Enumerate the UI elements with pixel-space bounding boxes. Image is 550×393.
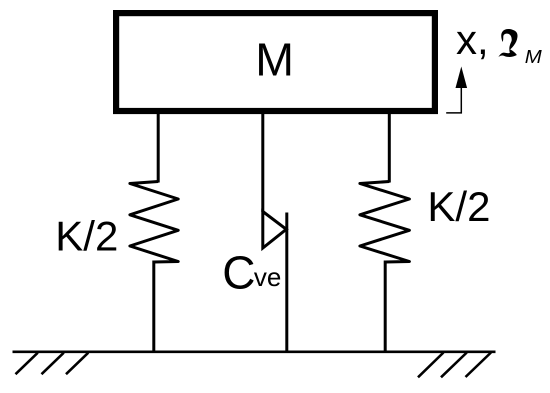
svg-text:K/2: K/2 — [55, 212, 118, 259]
ground hatch left 2 — [42, 353, 64, 375]
wire left spring top — [157, 110, 160, 183]
svg-text:x,: x, — [456, 16, 489, 63]
ground line — [13, 350, 496, 353]
wire damper bottom — [285, 213, 288, 353]
mass block M — [116, 13, 435, 111]
ground hatch left 1 — [16, 353, 38, 375]
ground hatch right 3 — [466, 353, 492, 378]
wire right spring bottom — [384, 261, 387, 353]
spring K/2 left — [130, 182, 178, 263]
label Im (fraktur I) — [498, 29, 517, 57]
spring K/2 right — [360, 182, 410, 263]
wire damper top — [261, 110, 264, 212]
ground hatch right 2 — [441, 353, 467, 378]
svg-text:M: M — [525, 47, 542, 67]
wire right spring top — [388, 110, 391, 183]
svg-text:K/2: K/2 — [427, 183, 490, 230]
svg-text:C: C — [222, 246, 255, 298]
ground hatch left 3 — [66, 353, 88, 375]
wire left spring bottom — [152, 261, 155, 353]
displacement arrow x — [446, 87, 461, 113]
ground hatch right 1 — [418, 353, 444, 378]
svg-text:M: M — [255, 34, 294, 86]
svg-text:ve: ve — [254, 262, 281, 292]
damper triangle Cve — [263, 212, 287, 249]
